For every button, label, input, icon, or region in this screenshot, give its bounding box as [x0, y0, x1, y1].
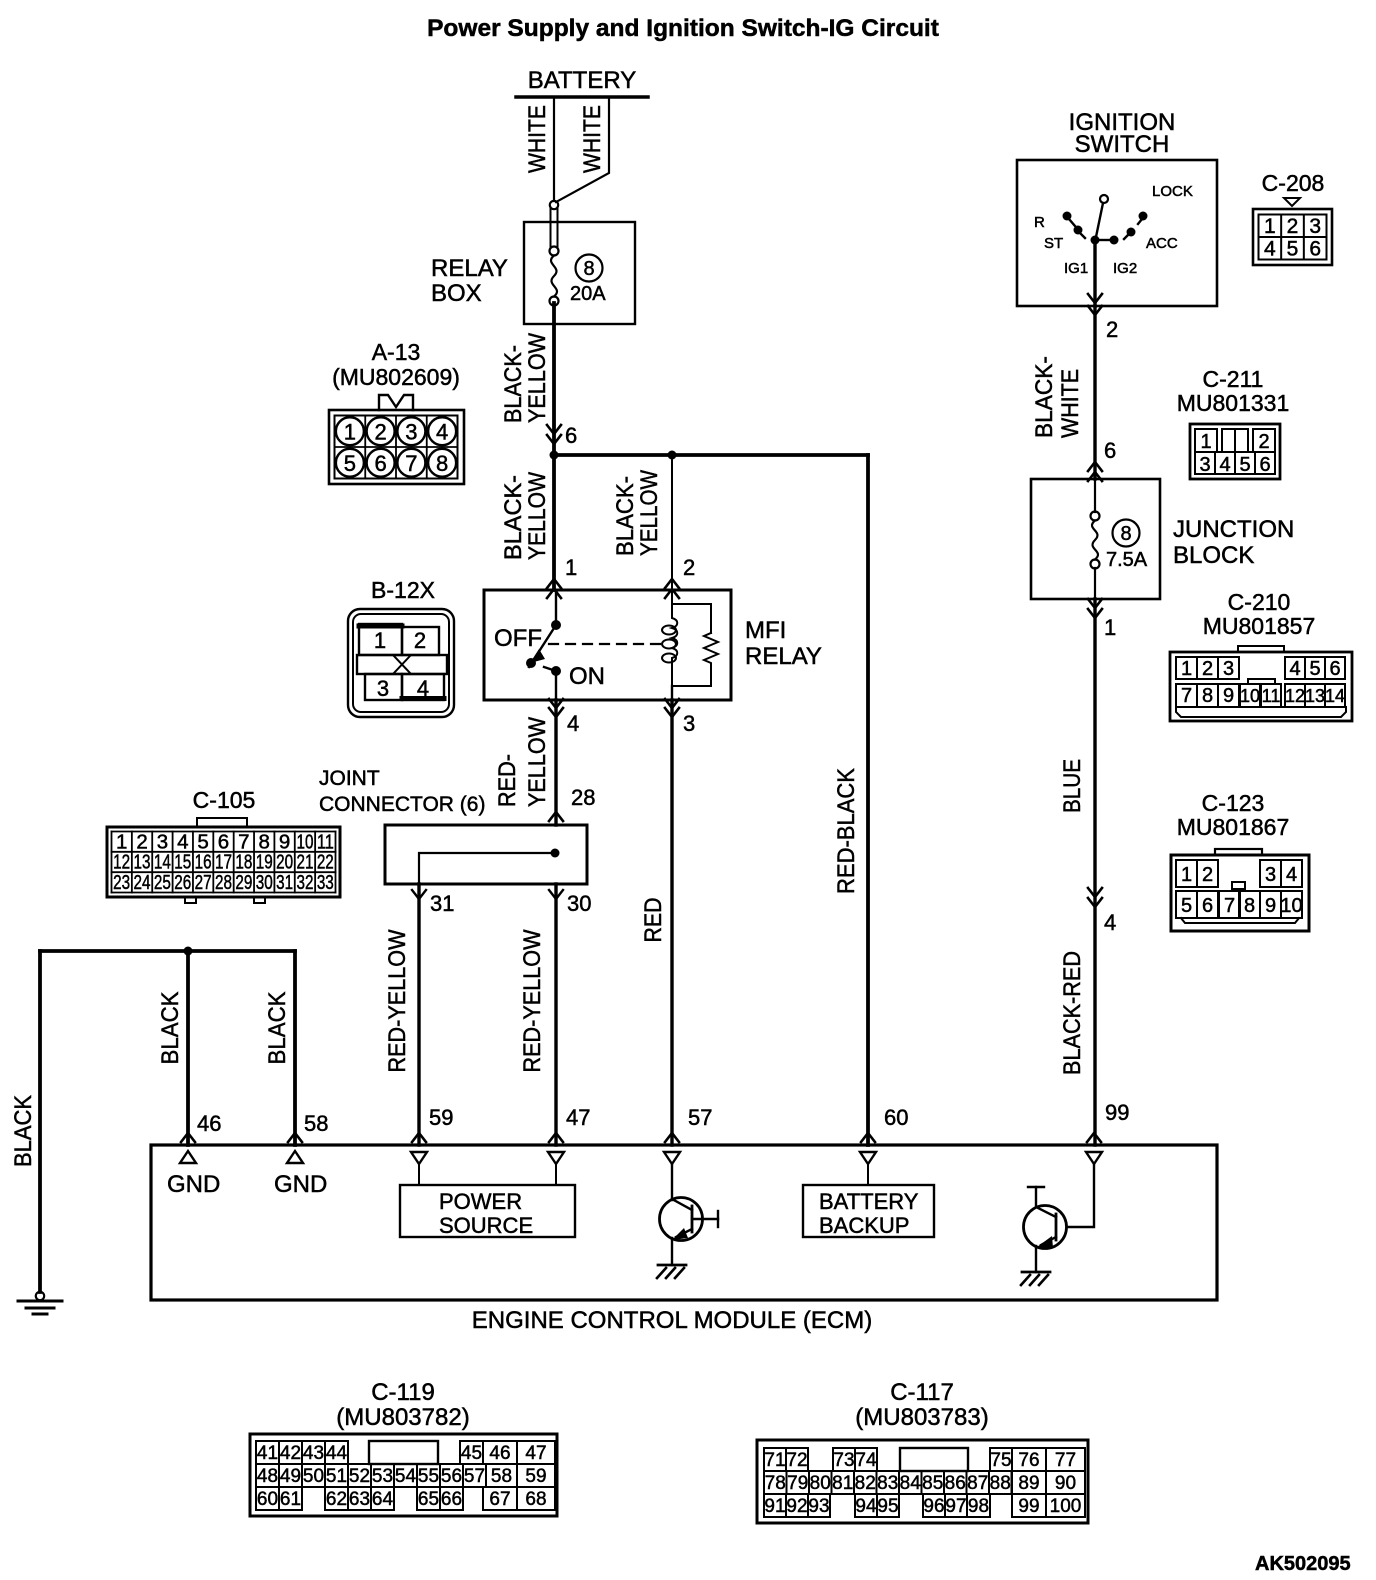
- svg-text:56: 56: [441, 1466, 462, 1487]
- relay coil: [671, 590, 673, 604]
- svg-text:31: 31: [276, 871, 293, 894]
- svg-text:BLACK: BLACK: [10, 1095, 37, 1167]
- svg-text:54: 54: [395, 1466, 417, 1487]
- relay coil resistor: [704, 633, 718, 686]
- wire BLACK to ECM 46: [186, 951, 190, 1145]
- svg-text:3: 3: [1265, 864, 1276, 886]
- svg-text:RED-YELLOW: RED-YELLOW: [384, 929, 411, 1072]
- svg-text:8: 8: [1244, 895, 1255, 917]
- svg-text:33: 33: [317, 871, 334, 894]
- svg-text:71: 71: [764, 1450, 785, 1471]
- svg-text:8: 8: [583, 258, 594, 280]
- svg-text:BACKUP: BACKUP: [819, 1213, 909, 1238]
- svg-text:90: 90: [1055, 1473, 1076, 1494]
- svg-text:86: 86: [945, 1473, 966, 1494]
- svg-text:28: 28: [215, 871, 232, 894]
- svg-text:R: R: [1034, 214, 1045, 231]
- svg-text:C-117: C-117: [890, 1379, 954, 1406]
- svg-text:91: 91: [764, 1496, 785, 1517]
- svg-text:MU801867: MU801867: [1177, 814, 1290, 840]
- svg-text:4: 4: [1104, 910, 1116, 935]
- svg-text:6: 6: [1329, 658, 1340, 680]
- svg-text:2: 2: [1106, 317, 1118, 342]
- pin 57 socket: [664, 1152, 680, 1164]
- pin 46 GND: [180, 1151, 196, 1163]
- svg-text:3: 3: [1309, 215, 1321, 238]
- svg-text:CONNECTOR (6): CONNECTOR (6): [319, 793, 485, 816]
- svg-text:89: 89: [1018, 1473, 1039, 1494]
- svg-text:58: 58: [304, 1111, 328, 1136]
- svg-text:LOCK: LOCK: [1152, 183, 1193, 200]
- svg-text:RED: RED: [640, 898, 667, 943]
- svg-text:52: 52: [349, 1466, 370, 1487]
- junction block box: [1031, 479, 1160, 599]
- svg-text:6: 6: [1202, 895, 1213, 917]
- power source block: [400, 1185, 575, 1237]
- svg-text:61: 61: [280, 1489, 301, 1510]
- svg-text:C-119: C-119: [371, 1379, 435, 1406]
- svg-text:B-12X: B-12X: [371, 577, 435, 603]
- svg-text:9: 9: [1265, 895, 1276, 917]
- ground Q1: [658, 1264, 686, 1267]
- svg-text:6: 6: [375, 451, 387, 476]
- svg-text:RED-: RED-: [494, 754, 521, 807]
- svg-text:BOX: BOX: [431, 280, 482, 307]
- svg-text:3: 3: [405, 419, 417, 444]
- svg-text:58: 58: [491, 1466, 512, 1487]
- svg-text:2: 2: [375, 419, 387, 444]
- svg-text:96: 96: [923, 1496, 944, 1517]
- svg-text:57: 57: [688, 1105, 712, 1130]
- svg-text:67: 67: [489, 1489, 510, 1510]
- node junction at relay coil branch: [668, 451, 677, 460]
- svg-text:59: 59: [525, 1466, 546, 1487]
- svg-text:SWITCH: SWITCH: [1075, 131, 1170, 158]
- svg-text:32: 32: [296, 871, 313, 894]
- svg-text:2: 2: [683, 555, 695, 580]
- wire RED-YELLOW 31 to ECM 59: [412, 890, 426, 899]
- svg-text:81: 81: [832, 1473, 853, 1494]
- svg-text:3: 3: [683, 711, 695, 736]
- svg-text:4: 4: [1286, 864, 1297, 886]
- svg-text:46: 46: [197, 1111, 221, 1136]
- svg-text:A-13: A-13: [372, 339, 421, 365]
- wire BLACK to ECM 58: [293, 951, 297, 1145]
- wire WHITE right from battery: [556, 97, 609, 202]
- svg-text:46: 46: [489, 1443, 510, 1464]
- svg-text:74: 74: [855, 1450, 877, 1471]
- wire BLACK ground bus: [40, 949, 295, 953]
- wire BLACK-YELLOW to MFI relay pin 1: [552, 455, 556, 590]
- svg-text:64: 64: [372, 1489, 394, 1510]
- ground chassis symbol: [36, 1292, 44, 1300]
- svg-text:1: 1: [1200, 431, 1211, 453]
- svg-text:99: 99: [1018, 1496, 1039, 1517]
- svg-text:MU801331: MU801331: [1177, 390, 1290, 416]
- svg-text:POWER: POWER: [439, 1189, 522, 1214]
- wire bus from node 6 to RED-BLACK branch: [554, 453, 868, 457]
- svg-text:ON: ON: [569, 663, 605, 690]
- svg-text:WHITE: WHITE: [1057, 369, 1084, 438]
- svg-text:94: 94: [855, 1496, 877, 1517]
- svg-text:RED-YELLOW: RED-YELLOW: [519, 929, 546, 1072]
- svg-text:41: 41: [257, 1443, 278, 1464]
- svg-text:WHITE: WHITE: [579, 105, 606, 173]
- svg-text:JOINT: JOINT: [319, 767, 380, 790]
- svg-text:6: 6: [565, 423, 577, 448]
- transistor Q1: [671, 1164, 673, 1200]
- svg-text:9: 9: [1223, 685, 1234, 707]
- svg-text:BLACK-: BLACK-: [1031, 356, 1058, 438]
- svg-text:YELLOW: YELLOW: [524, 472, 551, 560]
- svg-text:97: 97: [945, 1496, 966, 1517]
- svg-text:1: 1: [565, 555, 577, 580]
- pin 47 socket: [548, 1152, 564, 1164]
- svg-text:5: 5: [1309, 658, 1320, 680]
- svg-text:2: 2: [1202, 658, 1213, 680]
- svg-text:23: 23: [113, 871, 130, 894]
- svg-text:5: 5: [1287, 238, 1299, 261]
- svg-text:C-210: C-210: [1228, 589, 1291, 615]
- svg-text:76: 76: [1018, 1450, 1039, 1471]
- svg-text:1: 1: [344, 419, 356, 444]
- svg-text:3: 3: [1199, 454, 1210, 476]
- node junction at 6: [550, 451, 559, 460]
- svg-text:JUNCTION: JUNCTION: [1173, 516, 1294, 543]
- svg-text:31: 31: [430, 891, 454, 916]
- svg-text:2: 2: [1202, 864, 1213, 886]
- svg-text:(MU802609): (MU802609): [332, 364, 460, 390]
- svg-text:10: 10: [1280, 895, 1302, 917]
- svg-text:100: 100: [1050, 1496, 1082, 1517]
- svg-text:GND: GND: [167, 1171, 220, 1198]
- pin 58 GND: [287, 1151, 303, 1163]
- svg-text:BLACK-RED: BLACK-RED: [1059, 951, 1086, 1075]
- svg-text:2: 2: [1287, 215, 1299, 238]
- svg-text:87: 87: [967, 1473, 988, 1494]
- engine control module (ECM) box: [151, 1145, 1217, 1300]
- svg-text:51: 51: [326, 1466, 347, 1487]
- svg-text:5: 5: [1239, 454, 1250, 476]
- svg-text:8: 8: [436, 451, 448, 476]
- ignition switch rotor: [1100, 195, 1108, 203]
- svg-text:29: 29: [235, 871, 252, 894]
- svg-text:BLACK: BLACK: [264, 992, 291, 1065]
- pin 99 socket: [1086, 1152, 1102, 1164]
- wire BLUE junction block to C-123: [1088, 599, 1102, 608]
- svg-text:95: 95: [877, 1496, 898, 1517]
- svg-text:7.5A: 7.5A: [1106, 549, 1148, 571]
- svg-text:YELLOW: YELLOW: [636, 470, 663, 556]
- svg-text:10: 10: [1240, 686, 1260, 706]
- svg-text:75: 75: [990, 1450, 1011, 1471]
- svg-text:47: 47: [525, 1443, 546, 1464]
- svg-text:3: 3: [1223, 658, 1234, 680]
- svg-text:85: 85: [922, 1473, 943, 1494]
- node junction ground bus: [184, 947, 193, 956]
- svg-text:7: 7: [1181, 685, 1192, 707]
- svg-text:7: 7: [1224, 895, 1235, 917]
- svg-text:YELLOW: YELLOW: [524, 333, 551, 423]
- pin 59 socket: [411, 1152, 427, 1164]
- svg-text:1: 1: [374, 628, 386, 653]
- svg-text:93: 93: [808, 1496, 829, 1517]
- svg-text:28: 28: [571, 785, 595, 810]
- svg-text:IG1: IG1: [1064, 260, 1088, 277]
- wire BLACK to chassis ground: [38, 951, 42, 1292]
- svg-text:RELAY: RELAY: [431, 255, 508, 282]
- svg-text:7: 7: [405, 451, 417, 476]
- svg-text:68: 68: [525, 1489, 546, 1510]
- relay switch contact ON: [526, 658, 536, 668]
- svg-text:50: 50: [303, 1466, 324, 1487]
- svg-text:2: 2: [1258, 431, 1269, 453]
- wire RED-YELLOW 30 to ECM 47: [549, 890, 563, 899]
- svg-text:92: 92: [786, 1496, 807, 1517]
- node junction inside joint connector: [551, 849, 560, 858]
- svg-text:Power Supply and Ignition Swit: Power Supply and Ignition Switch-IG Circ…: [427, 15, 939, 42]
- svg-text:77: 77: [1055, 1450, 1076, 1471]
- wire RED-YELLOW relay pin 4 to joint connector 28: [549, 699, 563, 708]
- svg-text:IG2: IG2: [1113, 260, 1137, 277]
- dashed link switch to coil: [549, 643, 663, 645]
- wire BLACK-WHITE ignition to junction block: [1093, 306, 1096, 479]
- svg-text:8: 8: [1202, 685, 1213, 707]
- svg-text:60: 60: [257, 1489, 278, 1510]
- wire RED-BLACK to ECM 60: [866, 455, 870, 1145]
- svg-text:80: 80: [810, 1473, 831, 1494]
- fuse 8 7.5A: [1094, 479, 1096, 512]
- relay switch lever: [529, 625, 556, 667]
- svg-text:24: 24: [134, 871, 151, 894]
- svg-text:59: 59: [429, 1105, 453, 1130]
- svg-text:BATTERY: BATTERY: [819, 1189, 919, 1214]
- svg-text:43: 43: [303, 1443, 324, 1464]
- svg-text:1: 1: [1104, 615, 1116, 640]
- svg-text:6: 6: [1309, 238, 1321, 261]
- svg-text:1: 1: [1181, 658, 1192, 680]
- svg-text:88: 88: [990, 1473, 1011, 1494]
- svg-text:66: 66: [441, 1489, 462, 1510]
- svg-text:14: 14: [1325, 686, 1345, 706]
- svg-text:57: 57: [464, 1466, 485, 1487]
- svg-text:30: 30: [256, 871, 273, 894]
- svg-text:20A: 20A: [570, 283, 606, 305]
- svg-text:1: 1: [1181, 864, 1192, 886]
- svg-text:83: 83: [877, 1473, 898, 1494]
- svg-text:84: 84: [900, 1473, 922, 1494]
- svg-text:99: 99: [1105, 1100, 1129, 1125]
- svg-text:25: 25: [154, 871, 171, 894]
- svg-text:1: 1: [1264, 215, 1276, 238]
- ground Q2: [1022, 1271, 1050, 1274]
- svg-text:13: 13: [1305, 686, 1325, 706]
- pin 60 socket: [860, 1152, 876, 1164]
- fuse 8 20A: [550, 247, 559, 256]
- svg-text:(MU803783): (MU803783): [855, 1404, 988, 1431]
- svg-text:WHITE: WHITE: [524, 105, 551, 173]
- svg-text:73: 73: [833, 1450, 854, 1471]
- wire WHITE left from battery: [553, 97, 555, 201]
- wire RED relay pin 3 to ECM 57: [665, 699, 679, 708]
- svg-text:C-211: C-211: [1203, 366, 1264, 392]
- svg-text:44: 44: [326, 1443, 348, 1464]
- svg-text:4: 4: [1264, 238, 1276, 261]
- svg-text:2: 2: [414, 628, 426, 653]
- svg-text:BLACK-: BLACK-: [612, 476, 639, 556]
- svg-text:6: 6: [1104, 438, 1116, 463]
- svg-text:78: 78: [765, 1473, 786, 1494]
- svg-text:26: 26: [174, 871, 191, 894]
- svg-text:42: 42: [280, 1443, 301, 1464]
- svg-text:C-105: C-105: [193, 787, 256, 813]
- wire IG1 inside switch: [1093, 240, 1096, 306]
- MFI relay box: [484, 590, 731, 700]
- svg-text:4: 4: [1219, 454, 1230, 476]
- svg-text:53: 53: [372, 1466, 393, 1487]
- svg-text:5: 5: [1181, 895, 1192, 917]
- svg-text:C-123: C-123: [1202, 790, 1265, 816]
- svg-text:SOURCE: SOURCE: [439, 1213, 533, 1238]
- svg-text:12: 12: [1285, 686, 1305, 706]
- svg-text:RED-BLACK: RED-BLACK: [833, 768, 860, 894]
- svg-text:YELLOW: YELLOW: [524, 717, 551, 807]
- relay box: [524, 222, 635, 324]
- svg-text:11: 11: [1262, 686, 1281, 706]
- svg-text:ST: ST: [1044, 235, 1063, 252]
- svg-text:62: 62: [326, 1489, 347, 1510]
- svg-text:(MU803782): (MU803782): [336, 1404, 469, 1431]
- fusible link connector: [550, 201, 558, 209]
- svg-text:6: 6: [1259, 454, 1270, 476]
- svg-text:65: 65: [418, 1489, 439, 1510]
- svg-text:BLOCK: BLOCK: [1173, 542, 1254, 569]
- svg-text:5: 5: [344, 451, 356, 476]
- wire BLACK-YELLOW to MFI relay pin 2: [671, 455, 673, 590]
- transistor Q2: [1067, 1164, 1094, 1227]
- svg-text:98: 98: [968, 1496, 989, 1517]
- svg-text:BLACK-: BLACK-: [500, 345, 527, 423]
- svg-text:30: 30: [567, 891, 591, 916]
- svg-text:60: 60: [884, 1105, 908, 1130]
- svg-text:63: 63: [349, 1489, 370, 1510]
- wire BLACK-YELLOW from fuse to junction 6: [552, 303, 556, 455]
- svg-text:C-208: C-208: [1262, 170, 1325, 196]
- svg-text:BLACK-: BLACK-: [500, 475, 527, 560]
- svg-text:4: 4: [417, 676, 429, 701]
- svg-text:3: 3: [377, 676, 389, 701]
- svg-text:4: 4: [1289, 658, 1300, 680]
- svg-text:AK502095: AK502095: [1255, 1553, 1351, 1575]
- svg-text:72: 72: [786, 1450, 807, 1471]
- svg-text:79: 79: [787, 1473, 808, 1494]
- svg-text:27: 27: [195, 871, 212, 894]
- svg-text:BATTERY: BATTERY: [528, 67, 636, 94]
- svg-text:OFF: OFF: [494, 625, 542, 652]
- svg-text:82: 82: [855, 1473, 876, 1494]
- wire inside joint connector to 31: [419, 853, 555, 884]
- svg-text:47: 47: [566, 1105, 590, 1130]
- svg-text:49: 49: [280, 1466, 301, 1487]
- svg-text:BLUE: BLUE: [1059, 759, 1086, 813]
- svg-text:4: 4: [567, 711, 579, 736]
- svg-text:45: 45: [461, 1443, 482, 1464]
- svg-text:4: 4: [436, 419, 448, 444]
- svg-text:BLACK: BLACK: [157, 992, 184, 1065]
- svg-text:ENGINE CONTROL MODULE (ECM): ENGINE CONTROL MODULE (ECM): [472, 1307, 872, 1334]
- svg-text:MU801857: MU801857: [1203, 613, 1316, 639]
- svg-text:8: 8: [1120, 523, 1131, 545]
- svg-text:GND: GND: [274, 1171, 327, 1198]
- svg-text:48: 48: [257, 1466, 278, 1487]
- svg-text:MFI: MFI: [745, 617, 786, 644]
- svg-text:RELAY: RELAY: [745, 643, 822, 670]
- svg-text:ACC: ACC: [1146, 235, 1178, 252]
- svg-text:55: 55: [418, 1466, 439, 1487]
- battery backup block: [803, 1185, 934, 1237]
